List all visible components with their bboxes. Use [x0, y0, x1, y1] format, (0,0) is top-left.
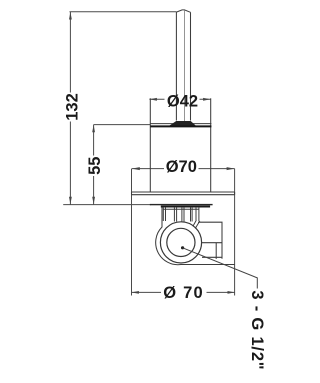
svg-text:55: 55	[86, 157, 104, 175]
svg-text:3 - G 1/2": 3 - G 1/2"	[248, 290, 266, 370]
svg-text:Ø70: Ø70	[166, 158, 197, 176]
svg-text:Ø 70: Ø 70	[163, 284, 204, 302]
svg-text:Ø42: Ø42	[167, 93, 198, 111]
svg-text:132: 132	[64, 93, 82, 121]
